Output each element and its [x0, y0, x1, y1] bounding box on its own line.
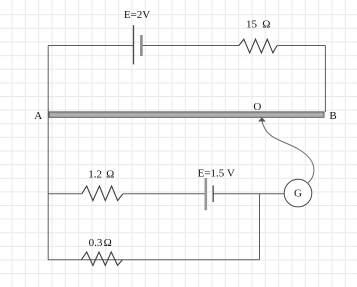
- svg-text:1.2Ω: 1.2Ω: [88, 168, 114, 180]
- svg-text:G: G: [294, 188, 302, 200]
- svg-text:A: A: [34, 110, 42, 122]
- svg-text:O: O: [253, 101, 261, 113]
- svg-text:E=2V: E=2V: [124, 9, 150, 21]
- svg-text:B: B: [329, 110, 336, 122]
- svg-text:0.3Ω: 0.3Ω: [89, 237, 112, 249]
- svg-text:E=1.5 V: E=1.5 V: [198, 167, 235, 179]
